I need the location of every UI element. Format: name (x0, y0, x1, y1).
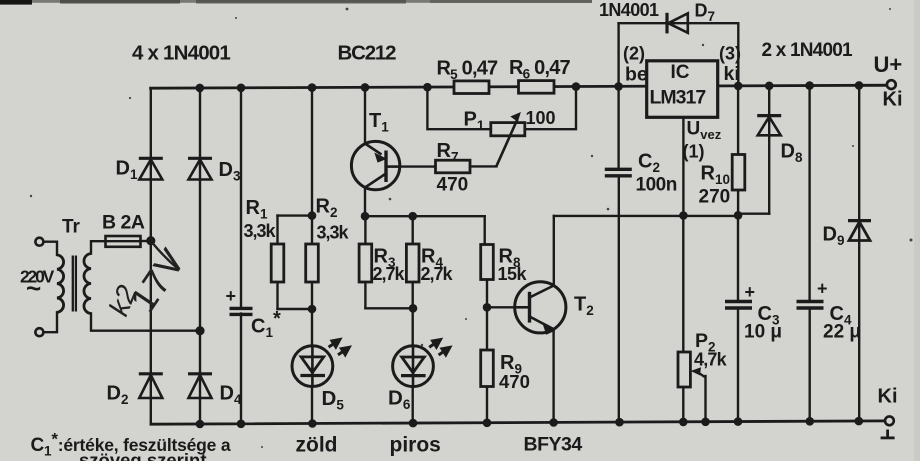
wire top positive rail (151, 85, 891, 88)
wire T1 collector down (364, 186, 366, 216)
svg-text:100: 100 (526, 108, 556, 128)
transformer Tr secondary winding (84, 254, 91, 314)
node T1 collector (361, 212, 370, 221)
diode D4 (188, 374, 212, 398)
svg-text:BFY34: BFY34 (524, 434, 583, 456)
svg-text:U+: U+ (874, 52, 903, 77)
svg-text:C2: C2 (638, 151, 660, 176)
transformer Tr core (73, 256, 76, 312)
resistor R5 0,47 (454, 81, 489, 94)
LED D6 piros (393, 340, 450, 387)
capacitor C4 (797, 302, 824, 309)
svg-text:zöld: zöld (296, 434, 338, 457)
wire P2 bottom (682, 385, 684, 423)
transistor T2 BFY34 (515, 282, 566, 335)
diode D2 (139, 374, 163, 398)
svg-text:470: 470 (499, 371, 530, 392)
capacitor C2 (605, 169, 632, 176)
wire bottom ground rail (151, 421, 885, 424)
svg-text:+: + (817, 279, 828, 299)
wire adjust line right segment (554, 215, 738, 217)
wire C1 branch vertical lower (240, 314, 242, 424)
wire T2 base from divider (487, 306, 530, 308)
wire D7 top segment (619, 22, 739, 24)
potentiometer P2 4,7k (678, 352, 701, 387)
svg-text:15k: 15k (498, 264, 528, 284)
svg-text:R5 0,47: R5 0,47 (437, 58, 499, 83)
resistor R7 470 (436, 160, 471, 173)
svg-text:D7: D7 (695, 1, 716, 25)
wire P2 wiper vertical (704, 376, 706, 422)
svg-text:4 x 1N4001: 4 x 1N4001 (132, 42, 230, 65)
wire C3 branch upper (737, 215, 739, 299)
wire C1 branch vertical upper (240, 88, 242, 307)
svg-text:270: 270 (699, 187, 731, 208)
scan artifact right edge (914, 0, 920, 461)
wire fuse to bridge node (140, 240, 151, 242)
svg-text:Tr: Tr (62, 217, 81, 238)
node T2 base divider (483, 303, 492, 312)
wire P1 right leg (525, 87, 576, 130)
svg-text:R1: R1 (246, 197, 268, 222)
svg-text:D8: D8 (781, 141, 803, 166)
ground symbol (881, 430, 895, 438)
svg-text:B 2A: B 2A (102, 212, 145, 234)
svg-text:BC212: BC212 (338, 42, 397, 65)
wire fuse through line (106, 240, 141, 242)
wire D7 bypass right vertical (737, 23, 739, 86)
resistor R6 0,47 (519, 81, 555, 94)
wire P2 top (682, 216, 684, 355)
wire R10 to adjust node (737, 188, 739, 215)
wire C2 branch vertical upper (617, 86, 619, 168)
wire C4 branch upper (808, 86, 810, 300)
node fuse to rectifier (146, 236, 155, 245)
svg-text:P1: P1 (464, 109, 485, 134)
svg-text:(3): (3) (719, 44, 741, 64)
resistor R1 3,3k (271, 244, 284, 282)
node R1 R2 top (308, 211, 317, 220)
svg-text:22 μ: 22 μ (823, 322, 861, 343)
svg-text:R6 0,47: R6 0,47 (509, 57, 571, 82)
svg-text:10 μ: 10 μ (744, 322, 782, 343)
node LM317 adjust (679, 211, 688, 220)
svg-text:D6: D6 (388, 387, 411, 413)
svg-text:+: + (745, 282, 756, 302)
wire transformer secondary top to fuse (91, 241, 106, 253)
wire transformer primary top (44, 242, 58, 255)
wire R4-D6 branch vertical (412, 216, 414, 423)
node top rail junctions (196, 81, 864, 92)
wire T2 collector up (553, 216, 555, 286)
svg-text:100n: 100n (636, 175, 677, 196)
LED D5 zold (292, 340, 349, 387)
wire node line T1 collector to R8 (365, 215, 485, 217)
wire R3 branch (364, 216, 366, 308)
diode D9 (848, 221, 871, 241)
wire D9 branch (858, 85, 860, 421)
transformer Tr primary terminal top (35, 238, 43, 246)
svg-text:Ki: Ki (878, 386, 898, 408)
wire R7 right lead (470, 165, 497, 167)
svg-text:2,7k: 2,7k (421, 264, 454, 284)
op-amp U1 IC LM317 regulator box (647, 61, 718, 118)
resistor R3 2,7k (359, 244, 372, 282)
diode D8 (757, 116, 781, 136)
wire R8 top corner (484, 216, 486, 247)
wire R8-R9 branch vertical (486, 246, 488, 423)
svg-text:D2: D2 (107, 383, 129, 408)
svg-text:T2: T2 (574, 294, 594, 319)
resistor R4 2,7k (406, 244, 419, 282)
svg-text:(1): (1) (683, 142, 705, 162)
wire C3 branch lower (737, 308, 739, 422)
svg-text:1N4001: 1N4001 (599, 0, 659, 20)
wire C4 branch lower (809, 308, 811, 421)
wire LM317 adjust pin (682, 117, 684, 215)
resistor R10 270 (732, 155, 745, 191)
capacitor C3 (725, 302, 752, 309)
scan artifact top bar (0, 0, 592, 3)
svg-text:szöveg szerint: szöveg szerint (79, 450, 207, 461)
svg-text:3,3k: 3,3k (244, 221, 277, 241)
svg-text:LM317: LM317 (650, 87, 706, 109)
wire R2-D5 branch vertical (311, 88, 313, 424)
svg-text:4,7k: 4,7k (694, 350, 728, 370)
node R4 top (408, 212, 417, 221)
potentiometer P1 100 (491, 112, 525, 166)
svg-text:Uvez: Uvez (687, 119, 722, 143)
wire R1 top horizontal (278, 214, 313, 216)
wire P2 wiper diagonal (698, 372, 705, 377)
wire transformer primary bottom (44, 312, 58, 332)
wire T1 emitter to rail (364, 87, 366, 145)
svg-text:D3: D3 (219, 159, 241, 184)
svg-text:ki: ki (724, 63, 740, 85)
wire transformer secondary bottom to D3-D4 node (91, 314, 200, 331)
resistor R9 470 (481, 350, 494, 387)
svg-text:~: ~ (26, 273, 41, 303)
svg-text:D9: D9 (823, 224, 845, 249)
transformer Tr primary terminal bottom (35, 328, 43, 336)
svg-text:D5: D5 (322, 387, 345, 413)
wire D3-D4 bridge branch vertical (199, 88, 201, 424)
handwritten stroke (153, 243, 178, 269)
wire R10 branch upper (737, 86, 739, 156)
svg-text:piros: piros (390, 434, 441, 457)
node R10 C3 D8 adjust (734, 211, 743, 220)
capacitor C1 (230, 308, 253, 314)
node bottom rail junctions (196, 417, 864, 429)
svg-text:3,3k: 3,3k (317, 223, 350, 243)
node secondary to D3-D4 (195, 326, 204, 335)
node Ki ground terminal (885, 416, 894, 425)
diode D1 (139, 158, 163, 179)
svg-text:R2: R2 (316, 196, 338, 221)
wire D1-D2 bridge branch vertical (150, 88, 152, 424)
svg-text:R7: R7 (437, 140, 459, 165)
node R1 R2 bottom (308, 305, 317, 314)
svg-text:D1: D1 (116, 158, 138, 183)
wire R3 bottom horizontal (365, 307, 413, 309)
svg-text:be: be (625, 64, 648, 86)
wire D8 branch (768, 86, 770, 214)
svg-text:470: 470 (437, 175, 469, 196)
svg-text:D4: D4 (220, 383, 242, 408)
svg-text:2,7k: 2,7k (373, 264, 406, 284)
svg-text:2 x 1N4001: 2 x 1N4001 (762, 40, 853, 61)
wire D7 bypass left vertical (617, 23, 619, 86)
svg-text:R10: R10 (701, 163, 730, 188)
svg-text:C1*: C1* (251, 308, 281, 340)
svg-text:(2): (2) (623, 44, 645, 64)
diode D7 (667, 13, 688, 34)
svg-text:+: + (226, 286, 237, 306)
wire D8 jog to adjust node (738, 212, 769, 214)
svg-text:T1: T1 (369, 110, 389, 135)
fuse B 2A (106, 236, 141, 247)
resistor R2 3,3k (306, 244, 319, 282)
svg-text:Ki: Ki (883, 89, 903, 111)
wire T2 emitter down (552, 329, 554, 423)
svg-text:IC: IC (671, 62, 690, 83)
node U+ output terminal (859, 80, 896, 89)
wire R1 bottom horizontal (278, 308, 313, 310)
wire C2 branch vertical lower (618, 177, 620, 423)
transformer Tr primary winding (57, 255, 64, 312)
wire R1 branch vertical (276, 216, 278, 309)
transistor T1 BC212 (351, 141, 400, 189)
diode D3 (188, 158, 212, 179)
wire P1 left leg (427, 87, 491, 129)
node R3 R4 bottom (409, 304, 418, 313)
resistor R8 15k (481, 245, 494, 280)
wire R7 left lead to T1 base (386, 165, 436, 167)
